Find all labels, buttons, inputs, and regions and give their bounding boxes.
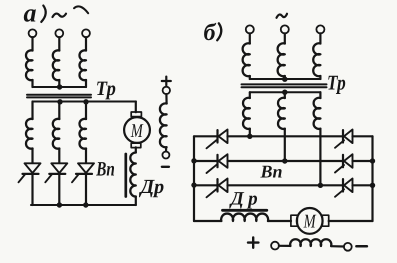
wire primary coil 1 to star bar (b): [249, 76, 251, 79]
transformer Tr secondary winding phase 1 (circuit a): [26, 119, 33, 149]
reactor Dr core bar (circuit a): [124, 154, 127, 197]
wire primary coil 3 to star bar (b): [319, 76, 321, 79]
junction dot cathode bar 2: [57, 202, 62, 207]
smoothing reactor Dr winding (circuit a): [130, 153, 136, 197]
wire excitation coil to - terminal (b): [331, 245, 344, 248]
thyristor left column row 1 (circuit b): [207, 130, 228, 149]
junction dot secondary bar phase3: [83, 99, 88, 104]
transformer Tr secondary winding phase 2 (circuit a): [53, 119, 60, 149]
junction dot phase2-rail2: [282, 158, 287, 163]
wire secondary bar to coil 1 (b): [249, 92, 251, 98]
excitation terminal - (circuit a): [162, 152, 169, 159]
wire secondary bar to coil 3 (b): [319, 92, 321, 98]
input terminal A2 (circle): [55, 29, 63, 37]
wire primary coil 1 to star bar: [31, 80, 33, 87]
primary star bar (circuit a): [33, 86, 87, 88]
transformer Tr primary winding phase 1 (circuit b): [243, 43, 250, 76]
svg-text:Вп: Вп: [260, 162, 283, 182]
wire phase 1 drop to rail 1: [249, 129, 251, 137]
wire motor to reactor (circuit a): [135, 147, 137, 152]
thyristor right column row 2 (circuit b): [335, 154, 353, 172]
rail 3 middle segment: [228, 184, 344, 186]
cathode common bar (circuit a): [31, 204, 136, 206]
AC tilde symbol circuit a: [53, 14, 67, 17]
svg-text:Тр: Тр: [96, 78, 116, 100]
transformer Tr primary winding phase 3 (circuit b): [313, 43, 320, 76]
wire thyristor V1 to cathode bar: [31, 175, 33, 206]
transformer Tr secondary winding phase 3 (circuit b): [314, 98, 321, 129]
svg-text:б: б: [204, 20, 217, 46]
motor M brush box left (circuit b): [291, 215, 297, 226]
rail 3 left segment: [194, 184, 218, 186]
wire terminal A3 to primary coil: [85, 37, 87, 50]
junction dot primary star: [57, 84, 62, 89]
rail 1 middle segment: [228, 135, 344, 137]
junction dot left rail row2: [191, 158, 196, 163]
junction dot cathode bar 3: [83, 202, 88, 207]
transformer Tr primary winding phase 1 (circuit a): [26, 50, 33, 80]
junction dot left rail row3: [191, 182, 196, 187]
junction dot primary star (b): [282, 77, 287, 82]
rail 3 right segment: [353, 184, 373, 186]
input terminal B2 (circle): [281, 25, 289, 33]
svg-text:Др: Др: [229, 188, 262, 209]
thyristor V2 (circuit a): [45, 163, 67, 182]
thyristor left column row 3 (circuit b): [207, 179, 228, 198]
svg-text:а: а: [24, 0, 37, 28]
wire reactor to motor (b): [268, 220, 291, 222]
plus sign excitation (circuit a): [162, 77, 171, 86]
transformer core line 1 (circuit a): [27, 94, 91, 96]
wire primary coil 3 to star bar: [85, 80, 87, 87]
excitation terminal - (circuit b): [344, 243, 352, 251]
transformer core line 2 (circuit b): [242, 86, 327, 88]
thyristor left column row 2 (circuit b): [207, 154, 228, 173]
wire secondary bar to coil 1: [31, 102, 33, 120]
motor M armature circle (circuit a): [124, 117, 150, 143]
minus sign excitation (circuit a): [162, 166, 169, 168]
rail 1 left segment: [194, 135, 218, 137]
wire secondary bar corner down to motor: [135, 102, 137, 113]
wire terminal B2 to primary coil: [284, 33, 286, 43]
motor M brush box top (circuit a): [131, 112, 141, 117]
transformer Tr secondary winding phase 3 (circuit a): [79, 119, 86, 149]
excitation winding (circuit a): [160, 103, 167, 147]
svg-text:Др: Др: [139, 176, 165, 198]
minus sign excitation (circuit b): [356, 245, 367, 248]
wire secondary bar to coil 2 (b): [284, 92, 286, 98]
wire phase 3 drop to rail 3: [319, 129, 321, 186]
transformer core line 2 (circuit a): [27, 96, 91, 98]
junction dot right rail row2: [370, 158, 375, 163]
wire terminal B3 to primary coil: [319, 33, 321, 43]
motor M brush box right (circuit b): [322, 215, 328, 226]
junction dot right rail row3: [370, 183, 375, 188]
rail 2 right segment: [353, 160, 373, 162]
input terminal B3 (circle): [316, 25, 324, 33]
wire left rail to reactor: [194, 220, 221, 222]
primary star bar (circuit b): [250, 78, 321, 80]
plus sign excitation (circuit b): [248, 237, 258, 247]
motor M armature circle (circuit b): [297, 208, 323, 234]
wire secondary bar to coil 3: [85, 102, 87, 120]
wire primary coil 2 to star bar: [58, 80, 60, 87]
wire secondary coil 3 to thyristor: [85, 149, 87, 164]
input terminal B1 (circle): [246, 25, 254, 33]
motor M brush box bottom (circuit a): [131, 143, 141, 147]
wire excitation coil to terminal: [165, 147, 167, 151]
transformer Tr secondary winding phase 1 (circuit b): [243, 98, 250, 129]
svg-text:М: М: [130, 121, 144, 142]
secondary common bar (circuit b): [250, 91, 321, 93]
wire terminal B1 to primary coil: [249, 33, 251, 43]
right DC rail (circuit b): [371, 136, 373, 221]
thyristor right column row 1 (circuit b): [335, 130, 353, 148]
thyristor V1 (circuit a): [19, 163, 41, 182]
junction dot phase3-rail3: [318, 183, 323, 188]
wire reactor to cathode bar: [135, 197, 137, 206]
rail 2 middle segment: [228, 160, 344, 162]
svg-text:Вп: Вп: [95, 159, 114, 181]
wire phase 2 drop to rail 2: [284, 129, 286, 161]
junction dot secondary bar (b): [282, 90, 287, 95]
reactor Dr core bar (circuit b): [223, 209, 267, 212]
thyristor right column row 3 (circuit b): [335, 179, 353, 197]
excitation winding (circuit b): [290, 239, 331, 246]
wire terminal to excitation coil: [165, 94, 167, 103]
junction dot secondary bar phase2: [57, 99, 62, 104]
transformer Tr primary winding phase 3 (circuit a): [79, 50, 86, 80]
wire primary coil 2 to star bar (b): [284, 76, 286, 79]
transformer Tr primary winding phase 2 (circuit a): [53, 50, 60, 80]
wire secondary coil 1 to thyristor: [31, 149, 33, 164]
smoothing reactor Dr winding (circuit b): [221, 214, 268, 221]
wire terminal A2 to primary coil: [58, 37, 60, 50]
AC tilde symbol circuit b: [277, 14, 288, 18]
svg-text:М: М: [303, 211, 317, 232]
input terminal A3 (circle): [82, 29, 90, 37]
wire thyristor V3 to cathode bar: [85, 175, 87, 206]
rail 1 right segment: [353, 135, 373, 137]
wire secondary bar to coil 2: [58, 102, 60, 120]
junction dot phase1-rail1: [247, 134, 252, 139]
secondary common bar (circuit a): [33, 101, 136, 103]
wire thyristor V2 to cathode bar: [58, 175, 60, 206]
svg-text:Тр: Тр: [327, 70, 346, 94]
transformer Tr secondary winding phase 2 (circuit b): [278, 98, 285, 129]
wire motor to right rail (b): [329, 220, 373, 222]
wire secondary coil 2 to thyristor: [58, 149, 60, 164]
transformer Tr primary winding phase 2 (circuit b): [278, 43, 285, 76]
thyristor V3 (circuit a): [72, 163, 94, 182]
stray arc mark: [74, 6, 88, 13]
left DC rail (circuit b): [193, 136, 195, 221]
wire + terminal to excitation coil (b): [279, 245, 291, 247]
rail 2 left segment: [194, 160, 218, 162]
input terminal A1 (circle): [29, 29, 37, 37]
excitation terminal + (circuit a): [163, 87, 170, 94]
transformer core line 1 (circuit b): [242, 83, 327, 85]
wire terminal A1 to primary coil: [31, 37, 33, 50]
excitation terminal + (circuit b): [271, 242, 279, 250]
